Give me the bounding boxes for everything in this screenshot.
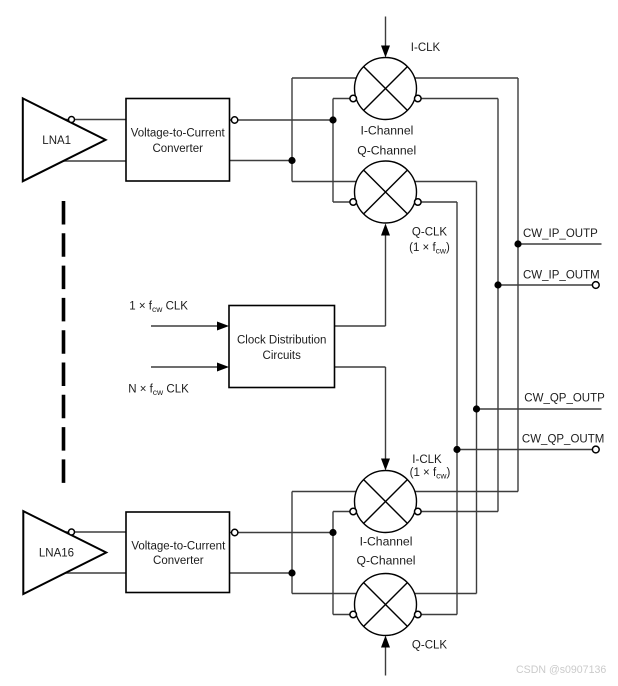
svg-text:I-CLK: I-CLK bbox=[412, 454, 442, 466]
svg-text:I-CLK: I-CLK bbox=[411, 42, 441, 54]
svg-text:Circuits: Circuits bbox=[263, 350, 302, 362]
svg-text:Voltage-to-Current: Voltage-to-Current bbox=[131, 540, 226, 552]
svg-text:I-Channel: I-Channel bbox=[360, 535, 413, 549]
svg-text:Q-Channel: Q-Channel bbox=[357, 554, 416, 568]
svg-text:Converter: Converter bbox=[152, 143, 203, 155]
svg-text:LNA16: LNA16 bbox=[39, 548, 74, 560]
svg-text:I-Channel: I-Channel bbox=[360, 123, 413, 137]
svg-text:CW_QP_OUTM: CW_QP_OUTM bbox=[522, 434, 604, 446]
svg-text:Q-Channel: Q-Channel bbox=[357, 143, 416, 157]
svg-text:Q-CLK: Q-CLK bbox=[412, 227, 447, 239]
svg-text:CSDN @s0907136: CSDN @s0907136 bbox=[516, 664, 606, 676]
svg-text:Q-CLK: Q-CLK bbox=[412, 640, 447, 652]
svg-text:CW_IP_OUTM: CW_IP_OUTM bbox=[523, 270, 600, 282]
svg-text:CW_QP_OUTP: CW_QP_OUTP bbox=[524, 393, 605, 405]
svg-text:Voltage-to-Current: Voltage-to-Current bbox=[131, 128, 226, 140]
svg-text:CW_IP_OUTP: CW_IP_OUTP bbox=[523, 228, 598, 240]
svg-text:LNA1: LNA1 bbox=[42, 135, 71, 147]
svg-text:Clock Distribution: Clock Distribution bbox=[237, 335, 326, 347]
svg-text:Converter: Converter bbox=[153, 555, 204, 567]
